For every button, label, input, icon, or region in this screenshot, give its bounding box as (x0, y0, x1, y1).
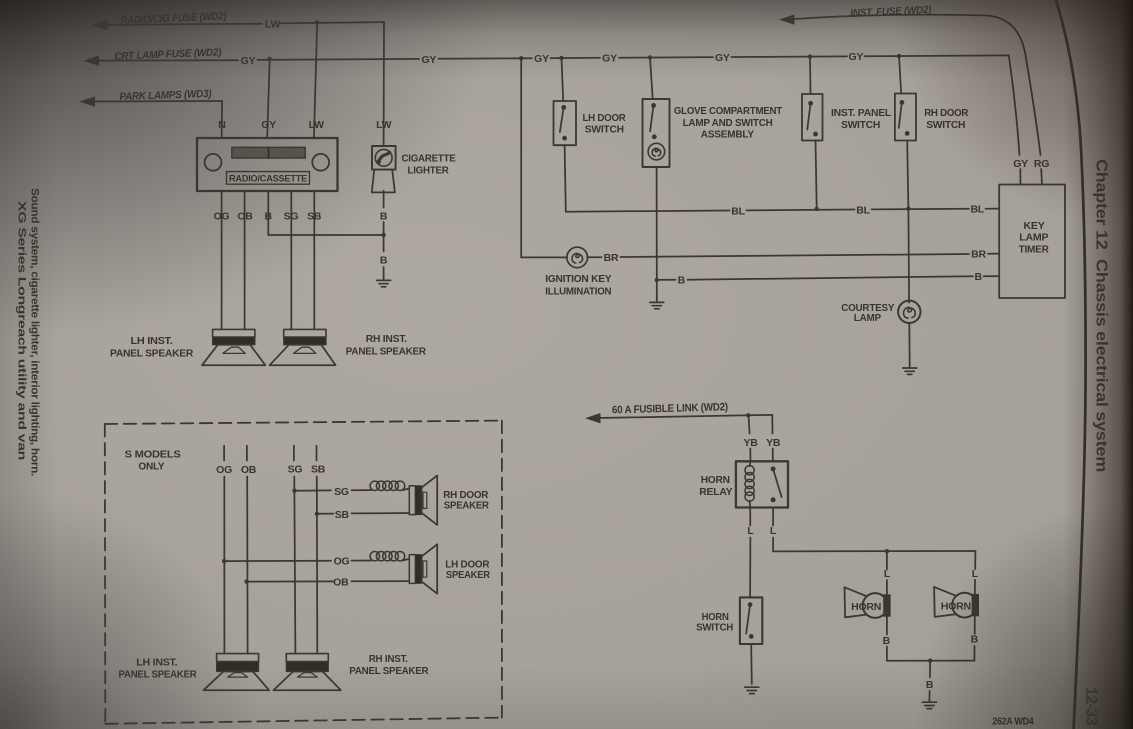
page edge curve of book (1055, 0, 1086, 729)
wire SB upper stub (316, 446, 318, 461)
wire to ground below glove (656, 280, 658, 302)
wire B horn ground bus (887, 660, 975, 662)
wire L relay to horn feed corner (772, 538, 774, 552)
node SG branch junction (292, 489, 296, 493)
RH inst. panel speaker (284, 329, 326, 337)
arrow to RADIO/CIG FUSE (WD2) (92, 20, 108, 30)
horn switch lever (746, 606, 750, 634)
LH door speaker (409, 555, 415, 584)
wire GY bus segment 4 (619, 56, 713, 59)
horn switch bottom contact (749, 634, 754, 639)
node GY-inst-panel junction (808, 54, 812, 58)
wire L to left horn upper (886, 551, 888, 569)
wire SB branch to RH door speaker (352, 512, 410, 514)
wire GY bus segment 1 (258, 59, 420, 60)
courtesy lamp (898, 301, 920, 323)
horn relay contact top (771, 466, 776, 471)
inst panel switch top contact (808, 101, 813, 106)
wire B below left horn upper (886, 617, 888, 635)
wire SB to RH panel speaker (S) (316, 477, 319, 654)
wire SB branch to label (317, 513, 334, 515)
wire OG branch to label (224, 560, 331, 562)
wire OB radio to LH panel speaker (244, 192, 246, 330)
wire OG upper stub (223, 446, 225, 461)
wire L relay to horn switch (749, 538, 751, 598)
horn relay box (736, 461, 788, 507)
wire L to left horn lower (886, 580, 888, 594)
wire OG branch to coil (352, 560, 372, 562)
inst. panel switch box (802, 94, 823, 141)
right horn (952, 593, 977, 618)
wire SG upper stub (293, 446, 295, 461)
wire L below relay contact (772, 508, 774, 526)
RH door switch bottom contact (905, 131, 910, 136)
wire GY bus segment 2 (439, 57, 533, 60)
wire coil to LH door speaker (403, 559, 410, 561)
wire courtesy lamp to ground (908, 323, 910, 367)
node SB branch junction (315, 512, 319, 516)
wire L to right horn upper (974, 551, 976, 569)
ignition key illumination lamp (567, 247, 588, 268)
wire BL node down to courtesy lamp (907, 209, 910, 303)
wire B below right horn upper (974, 616, 976, 634)
wire BL segment 2 (747, 209, 855, 212)
wire SG to RH panel speaker (S) (294, 477, 295, 654)
LH door switch box (554, 101, 577, 145)
wire B segment 2 (688, 276, 974, 279)
RH door switch box (895, 94, 916, 141)
wire B lighter to ground lower (383, 267, 385, 280)
cigarette lighter socket body (372, 170, 395, 193)
S models dashed box bottom edge (105, 718, 502, 724)
RADIO/CASSETTE label box (227, 172, 310, 185)
node GY-RH-door junction (897, 54, 901, 58)
node LW radio junction (315, 20, 319, 24)
LH door switch bottom contact (562, 136, 567, 141)
ground below horn switch (745, 687, 759, 693)
wire B across to lighter ground drop (268, 234, 383, 236)
wire GY into RH door switch (899, 56, 901, 93)
node BL RH-door junction (906, 206, 910, 210)
wire RG into key lamp timer (1040, 169, 1043, 185)
wire GY bus segment 6 (865, 54, 1009, 57)
wire horn switch to ground (750, 644, 753, 684)
wire LW drop to cigarette lighter (383, 22, 385, 146)
wire B below right horn lower (973, 646, 975, 661)
arrow to PARK LAMPS (WD3) (80, 96, 96, 106)
node B horn ground junction (928, 659, 932, 663)
ground below courtesy lamp (903, 368, 917, 374)
wire B lighter to ground upper (383, 222, 385, 252)
wire B below left horn lower (886, 647, 888, 661)
wire OG to LH panel speaker (S) (223, 477, 225, 654)
key lamp timer box (999, 185, 1065, 299)
wire L to right horn lower (974, 580, 976, 594)
wire B to horn ground upper (929, 661, 931, 678)
horn switch box (740, 597, 762, 644)
wire BR from ignition lamp (588, 256, 602, 258)
horn relay contact lever (773, 470, 781, 497)
wire B into key lamp timer (984, 275, 1000, 277)
node L left horn junction (885, 549, 889, 553)
glove compartment lamp (648, 143, 665, 160)
wire GY bus segment 3 (551, 57, 601, 59)
wire OB branch to label (247, 580, 334, 582)
node OB branch junction (244, 579, 248, 583)
RH door switch lever (899, 103, 902, 128)
inst panel switch bottom contact (813, 132, 818, 137)
LH door switch lever (560, 108, 564, 132)
wire L below relay coil (749, 508, 751, 526)
wire B below lighter (383, 191, 385, 208)
wire B down from radio (267, 192, 269, 236)
node OG branch junction (222, 559, 226, 563)
arrow to CRT LAMP FUSE (WD2) (84, 56, 100, 66)
wire fusible link feed (597, 415, 748, 418)
wire LW drop to radio (314, 23, 317, 139)
wire N to park lamps (91, 100, 222, 103)
wire GY bend down to key lamp timer (1009, 55, 1020, 155)
wire B segment 1 (657, 279, 676, 281)
wire GY feed left segment (95, 59, 238, 61)
wire YB into relay coil (749, 449, 751, 462)
wire glove lamp down to B node (656, 167, 658, 280)
RH inst. panel speaker (S models) (286, 654, 328, 662)
node GY-glove junction (648, 55, 652, 59)
glove switch bottom contact (652, 134, 657, 139)
horn relay contact bottom (771, 497, 776, 502)
wire GY bus segment 5 (732, 55, 848, 58)
wire GY into key lamp timer (1019, 169, 1021, 185)
ground below glove assembly (650, 302, 664, 308)
wire GY into LH door switch (562, 58, 564, 101)
node GY-ignition-key junction (519, 56, 523, 60)
wire B to horn ground lower (928, 691, 930, 701)
wire GY down to ignition key illumination (520, 58, 522, 257)
wire BL segment 1 (566, 211, 730, 212)
wire into ignition key lamp (521, 256, 567, 258)
wire N drop to radio (221, 101, 224, 138)
wire RH door switch to BL bus (907, 141, 908, 209)
node BL inst-panel junction (815, 207, 819, 211)
wire RG from inst fuse bending down page (791, 15, 1041, 155)
radio dial window (232, 147, 305, 158)
horn relay coil (745, 466, 754, 502)
arrow to 60 A fusible link (WD2) (585, 413, 601, 423)
radio right knob (312, 154, 329, 171)
wire BR long segment (621, 254, 970, 257)
inductor choke RH door speaker SG (370, 481, 405, 490)
wire OG radio to LH panel speaker (221, 192, 223, 330)
RH door switch top contact (900, 100, 905, 105)
node YB junction (746, 413, 750, 417)
S models dashed box right edge (501, 421, 503, 718)
arrow to INST. FUSE (WD2) (779, 14, 795, 24)
wire OB branch to LH door speaker (352, 580, 410, 582)
wire LH door switch to BL bus (565, 145, 566, 212)
wire SG branch to coil (352, 489, 372, 491)
cigarette lighter element bar (378, 152, 389, 162)
wire inst panel switch to BL bus (816, 141, 817, 209)
inst panel switch lever (807, 104, 810, 129)
horn switch top contact (748, 602, 753, 607)
wire YB into relay contact (772, 449, 774, 462)
wire GY drop to radio (267, 59, 270, 138)
wire OB upper stub (246, 446, 248, 461)
wire YB right upper (771, 415, 773, 434)
LH inst. panel speaker (S models) (217, 654, 259, 662)
glove switch top contact (651, 103, 656, 108)
wire SB radio to RH panel speaker (313, 192, 315, 330)
wire LW from junction to cigarette lighter drop (281, 22, 384, 23)
S models dashed box left edge (104, 424, 107, 724)
glove compartment lamp and switch assembly box (643, 99, 670, 167)
wire OB to LH panel speaker (S) (246, 477, 248, 654)
wire BR into key lamp timer (988, 253, 999, 255)
LH inst. panel speaker (213, 329, 255, 337)
wire LW feed to radio/cig fuse (104, 24, 262, 25)
cigarette lighter element circle (375, 149, 392, 166)
ground below cigarette lighter (377, 280, 391, 286)
node B junction at lighter drop (381, 233, 385, 237)
LH door switch top contact (561, 105, 566, 110)
inductor choke LH door speaker OG (370, 552, 405, 561)
left horn (863, 593, 888, 618)
wire SG radio to RH panel speaker (290, 192, 292, 330)
wire L horn feed bus (773, 550, 975, 552)
node GY-LH-door junction (559, 56, 563, 60)
wire GY into glove box assembly (650, 58, 653, 100)
wire SG branch to label (295, 489, 332, 491)
glove switch lever (650, 106, 653, 131)
wire coil to RH door speaker (403, 489, 410, 491)
radio left knob (205, 154, 222, 171)
cigarette lighter box (372, 146, 396, 170)
wire YB left upper (749, 415, 750, 433)
wire BL segment 3 (872, 208, 970, 211)
radio/cassette unit box (197, 138, 338, 191)
S models dashed box top edge (105, 421, 502, 424)
ground below horns (922, 702, 936, 708)
RH door speaker (409, 486, 415, 515)
wire YB to contact side (748, 414, 772, 416)
wire GY into inst panel switch (809, 57, 812, 94)
node GY-radio junction (268, 57, 272, 61)
node B junction below glove (655, 278, 659, 282)
wire BL into key lamp timer (986, 208, 1000, 210)
